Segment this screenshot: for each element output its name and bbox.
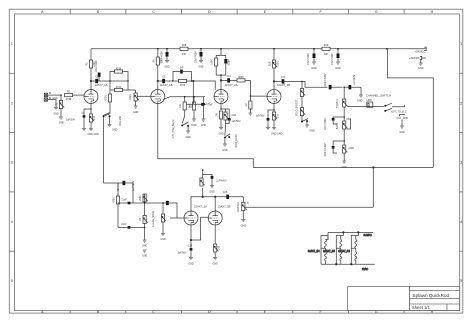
svg-text:GND: GND [185,136,191,139]
resistor R1 470R grid stopper [60,91,84,101]
svg-text:12AX7_2B: 12AX7_2B [277,83,290,87]
svg-text:2: 2 [460,101,462,105]
capacitor C19 47uF/400V bus filter [307,49,317,70]
svg-text:12AX7_3A: 12AX7_3A [194,205,207,209]
svg-text:GND: GND [142,245,148,248]
resistor R4 1M grid leak [56,95,65,124]
potentiometer MASTER [237,201,250,227]
svg-text:1M: 1M [139,218,142,221]
svg-text:C16: C16 [232,114,237,117]
resistor R18 500K series to V2B grid [237,76,267,96]
svg-text:GND: GND [191,124,197,127]
node bus junction dots [157,48,388,50]
svg-text:GND: GND [198,66,204,69]
potentiometer clean MID [145,203,167,241]
resistor R31 470K clean tone [113,183,120,227]
heater unit V1 filaments [308,236,328,265]
title block notes box [348,287,410,311]
svg-text:GND: GND [310,130,316,133]
capacitor C13 680nF treble feed [324,73,343,89]
capacitor C18 1uF/50V bypass V2B [255,104,274,130]
svg-text:1uF/400V: 1uF/400V [353,74,356,85]
svg-text:12AX7_1B: 12AX7_1B [160,83,173,87]
svg-text:4: 4 [460,220,462,224]
frame row numbers right [460,42,462,283]
capacitor C3 coupling V1A [95,76,110,84]
svg-text:GND: GND [142,255,148,258]
svg-text:GND GND: GND GND [88,133,100,136]
svg-text:10K: 10K [179,103,182,108]
switch gain structure select [172,116,191,139]
resistor R33 cathode V3B [213,225,221,265]
svg-text:IN_GND: IN_GND [49,97,58,100]
ground clean stack lower [142,250,148,258]
resistor R28 10K series on bus [180,44,188,56]
resistor R3 2K7 cathode V1A [88,109,100,136]
capacitor C7 bright cap loop [172,66,192,81]
svg-text:10K: 10K [216,112,219,117]
svg-text:GAIN: GAIN [129,94,132,100]
potentiometer GAIN [128,90,151,114]
svg-text:1M: 1M [56,103,59,106]
svg-text:12AX7_3H: 12AX7_3H [338,250,350,253]
capacitor C11 coupling V2A [226,75,237,83]
svg-text:470R: 470R [66,98,72,101]
frame column letters top [41,10,433,14]
switch channel select contacts [384,103,408,134]
svg-text:22uF/400V: 22uF/400V [195,51,198,63]
svg-text:220nF/400V: 220nF/400V [324,143,327,156]
svg-text:3: 3 [460,161,462,165]
node +290VDC supply connector [415,47,427,54]
capacitor C5 coupling V1B [162,76,173,84]
potentiometer TREBLE [336,87,384,117]
svg-text:GND: GND [201,124,207,127]
frame row ticks right [460,73,463,251]
node IN_GND connector [44,97,59,115]
svg-text:Splawn QuickRod: Splawn QuickRod [413,293,450,298]
capacitor C8 22uF/400V bus filter [195,49,204,69]
svg-text:SOLO_BOOST: SOLO_BOOST [296,99,299,116]
op-amp triode V1A 12AX7_1A [84,83,108,103]
resistor R5 470K with bright loop [109,68,129,82]
svg-text:GND: GND [241,224,247,227]
wire V2B cathode rail [163,97,205,100]
svg-text:470K: 470K [116,86,122,89]
svg-text:12AX7_1H: 12AX7_1H [308,250,320,253]
svg-text:GND: GND [218,133,224,136]
resistor R7 470K series lower branch [110,81,128,92]
svg-text:100K: 100K [211,59,214,65]
svg-text:0VAC: 0VAC [362,268,368,271]
resistor R20 100K plate load V2B [269,49,280,90]
wire lower plate rail [191,196,243,211]
svg-text:MASTER: MASTER [237,202,240,212]
svg-text:D: D [208,10,211,14]
svg-text:GND: GND [112,129,118,132]
svg-text:6.3VAC: 6.3VAC [364,234,372,237]
svg-text:C14: C14 [188,245,193,248]
frame row numbers left [11,42,13,283]
svg-text:5: 5 [11,279,13,283]
svg-text:10K: 10K [182,53,187,56]
svg-text:2K2: 2K2 [277,113,280,118]
svg-text:22nF: 22nF [121,199,127,202]
wire grid feed V2A [192,80,216,90]
svg-text:H: H [431,10,434,14]
wire V2B plate node [273,81,281,83]
svg-text:1uF/50V: 1uF/50V [66,119,75,122]
svg-text:10K: 10K [324,53,329,56]
svg-text:GND: GND [53,113,59,116]
op-amp triode V1B 12AX7_1B [151,83,173,103]
resistor R21 cathode V2B [271,110,283,136]
svg-text:GND: GND [133,111,139,114]
svg-text:GND: GND [349,147,355,150]
svg-text:GND: GND [222,149,228,152]
svg-text:47uF/400V: 47uF/400V [331,53,334,65]
svg-text:C: C [152,10,155,14]
potentiometer BASS [336,116,351,141]
potentiometer cathode trim V2A [221,109,229,124]
svg-text:470K: 470K [116,68,122,71]
svg-text:1uF/400V: 1uF/400V [216,180,227,183]
potentiometer SOLO level [296,81,305,119]
svg-text:100K: 100K [277,61,280,67]
resistor R12 cathode V1B [189,96,197,127]
svg-text:R20: R20 [269,61,272,66]
svg-text:C26: C26 [223,191,228,194]
capacitor C9 1uF cathode bypass V1B [201,97,211,127]
svg-text:1M: 1M [245,103,248,106]
title block [410,287,460,311]
svg-text:22nF: 22nF [121,223,127,226]
svg-text:2K7: 2K7 [93,115,96,120]
svg-text:12AX7_2H: 12AX7_2H [323,250,335,253]
wire V2A plate node [220,80,227,82]
svg-text:GND: GND [357,99,363,102]
capacitor C26 on lower rail [223,191,229,199]
potentiometer MID [342,140,355,169]
svg-text:1uF/50V: 1uF/50V [232,120,241,123]
capacitor C21 1uF/400V tone stack input [118,180,135,191]
heater unit V3 filaments [338,232,358,264]
svg-text:22uF/400V: 22uF/400V [95,60,98,72]
wire feedback loop line A [158,104,434,168]
svg-text:R28: R28 [182,44,187,47]
svg-text:GND: GND [399,131,405,134]
svg-text:12AX7_1A: 12AX7_1A [95,83,108,87]
resistor R11 cathode V1B [179,96,186,116]
wire V1A plate node [90,80,95,82]
svg-text:GND: GND [209,190,215,193]
potentiometer clean BASS [139,211,155,248]
node IN connector [44,92,61,96]
svg-text:OUT_GND: OUT_GND [396,117,408,120]
resistor R14 cathode V2A [216,104,224,136]
capacitor C20 47uF/400V bus filter [331,49,341,70]
B+ bus wire [91,48,426,50]
svg-text:R29: R29 [324,44,329,47]
node +290VDC_GND connector [409,56,426,69]
svg-text:C17: C17 [281,76,286,79]
wire line B master to mid column [246,167,374,208]
svg-text:1uF/50V: 1uF/50V [177,252,186,255]
svg-text:12AX7_2A: 12AX7_2A [225,83,238,87]
svg-text:GND GND: GND GND [271,133,283,136]
op-amp triode V3B 12AX7_3B [208,205,230,225]
svg-text:1uF/400V: 1uF/400V [132,180,135,191]
svg-text:GND: GND [311,67,317,70]
resistor R13 plate network V2A with bypass cap [211,49,231,90]
svg-text:47uF/400V: 47uF/400V [307,53,310,65]
svg-text:1: 1 [460,42,462,46]
svg-text:470K: 470K [105,95,108,101]
svg-text:GT1_PRE_SELM: GT1_PRE_SELM [172,120,175,139]
svg-text:IN: IN [49,92,52,95]
potentiometer lower plate trim [200,169,205,197]
svg-text:1M: 1M [247,201,250,204]
capacitor C17 coupling V2B [281,76,328,87]
resistor R2 100K plate load V1A [86,49,97,90]
capacitor C25 1uF/400V decouple lower [203,175,227,194]
svg-text:3: 3 [11,161,13,165]
svg-text:2: 2 [11,101,13,105]
svg-text:12AX7_3B: 12AX7_3B [218,205,231,209]
svg-text:470K: 470K [180,84,186,87]
svg-text:+290VDC: +290VDC [415,51,426,54]
resistor R6 100K plate load V1B [152,49,162,90]
resistor R10 grid leak V2A to cathode rail [186,81,213,109]
svg-text:22nF/400V: 22nF/400V [324,118,327,130]
capacitor C22 22nF clean treble [118,190,133,205]
svg-text:+290VDC_GND: +290VDC_GND [409,57,426,60]
resistor R9 on V1A bypass to switch [105,90,112,113]
frame row ticks left [9,73,14,251]
svg-text:1nF: 1nF [179,66,184,69]
wire heater 0VAC rail [321,263,375,271]
svg-text:1K5: 1K5 [218,245,221,250]
capacitor C15 22nF bass [324,117,344,130]
svg-text:2K2: 2K2 [189,103,192,108]
svg-text:CHANNEL_SWITCH: CHANNEL_SWITCH [366,94,391,98]
svg-text:GND: GND [160,238,166,241]
svg-text:C: C [152,310,155,314]
svg-text:500K: 500K [238,76,244,79]
svg-text:GND: GND [213,262,219,265]
wire left long vertical to tone stack [104,117,123,183]
potentiometer clean TREBLE [133,194,148,216]
wire V1B plate node [157,80,162,82]
heater unit V2 filaments [323,232,343,264]
frame column ticks bottom [70,311,404,314]
svg-text:5: 5 [460,279,462,283]
capacitor C4 22uF/400V bus filter [161,49,170,69]
wire supply step to right column [388,49,434,168]
svg-text:GND: GND [59,122,65,125]
op-amp triode V3A 12AX7_3A [184,205,207,225]
svg-text:1uF: 1uF [206,103,211,106]
resistor R29 10K series on bus [322,44,330,56]
svg-text:470K: 470K [113,197,116,203]
frame column ticks top [70,9,404,14]
svg-text:GND: GND [164,66,170,69]
node CHANNEL_SWITCH [366,94,391,108]
svg-text:OUT_TO_B_2: OUT_TO_B_2 [391,111,407,114]
capacitor C16b 220nF mid [324,141,344,157]
capacitor C27 1uF/50V cathode V3A [177,225,193,265]
switch solo boost V2A [222,124,238,152]
capacitor C16 1uF/50V bypass V2A [226,109,241,124]
op-amp triode V2B 12AX7_2B [267,83,290,103]
svg-text:GND: GND [418,67,424,70]
svg-text:1: 1 [11,42,13,46]
capacitor C2 1uF/50V cathode bypass V1A [66,104,92,131]
wire heater 6.3VAC rail [328,232,373,237]
svg-text:Sheet 1/1: Sheet 1/1 [412,305,431,310]
svg-text:500pF: 500pF [228,58,231,65]
resistor R19 grid leak V2B [245,95,253,115]
svg-text:GND: GND [335,67,341,70]
svg-text:C11: C11 [226,75,231,78]
resistor R8 470K series [173,79,192,87]
svg-text:D: D [208,310,211,314]
switch solo on/off [301,119,315,133]
capacitor C24 coupling to V3A grid [144,201,184,218]
svg-text:100K: 100K [159,58,162,64]
svg-text:4: 4 [11,220,13,224]
frame column letters bottom [41,310,433,314]
capacitor C14 1uF treble feed [343,74,361,95]
svg-text:250K: 250K [139,195,142,201]
svg-text:1uF/50V: 1uF/50V [255,115,264,118]
svg-text:220nF/400V: 220nF/400V [324,73,327,86]
capacitor C1 22uF/400V at V1A plate [95,60,101,81]
svg-text:TREBLE: TREBLE [336,98,339,108]
capacitor C23 22nF clean bass [118,223,145,229]
svg-text:BASS: BASS [336,122,339,129]
wire V3B grid link [190,217,208,241]
switch OD1-V02 channel relay [103,113,122,132]
svg-text:CLEAN_TONE: CLEAN_TONE [152,211,155,227]
svg-text:OD1-V02: OD1-V02 [119,115,122,126]
svg-text:BOO_ACA0: BOO_ACA0 [235,134,238,148]
op-amp triode V2A 12AX7_2A [214,83,238,103]
svg-text:GND: GND [188,262,194,265]
svg-text:G: G [375,10,378,14]
